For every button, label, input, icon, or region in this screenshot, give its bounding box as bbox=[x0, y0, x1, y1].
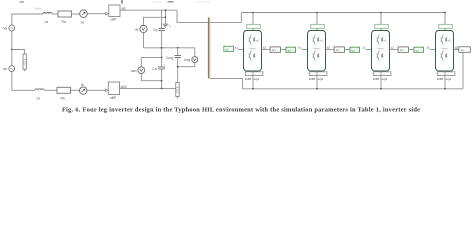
svg-text:Ra: Ra bbox=[62, 20, 66, 24]
capacitor Ca plates bbox=[158, 67, 165, 69]
faint speck D bbox=[152, 2, 162, 3]
wire Cp bottom lead bbox=[161, 31, 163, 48]
fuse Rf bottom stub bbox=[177, 97, 179, 99]
core coupling green line bbox=[209, 18, 211, 79]
diode D1 bbox=[253, 37, 255, 44]
junction node B bbox=[161, 57, 163, 59]
wire node A down to Ca bbox=[161, 48, 163, 67]
svg-text:Cp: Cp bbox=[153, 28, 157, 32]
leg 3 under box bbox=[373, 72, 391, 76]
wire Vn down to bottom rail bbox=[12, 72, 35, 91]
wire into leg 2 bbox=[302, 48, 308, 50]
leg 1 bottom wire bbox=[252, 71, 254, 89]
faint remnant C bbox=[35, 8, 43, 10]
wire Ra to ammeter ia bbox=[72, 13, 80, 15]
wire mid junction to fuse Rn bbox=[12, 50, 25, 55]
wire corner down to dc rail bbox=[177, 10, 241, 22]
diode D6 bbox=[381, 53, 383, 60]
junction ua/ground bbox=[165, 16, 167, 18]
wire to goto tag a bbox=[281, 48, 286, 50]
wire Cmg bottom lead bbox=[177, 58, 179, 67]
port arrow into block uBP2 bbox=[105, 89, 108, 92]
wire a0 output rail bbox=[120, 9, 177, 11]
svg-text:IGBT Leg4: IGBT Leg4 bbox=[437, 77, 452, 81]
resistor Rb bbox=[57, 87, 71, 93]
svg-text:Lb: Lb bbox=[37, 96, 41, 100]
wire uan top lead bbox=[140, 57, 142, 66]
ammeter block ia bbox=[270, 47, 280, 52]
diode D4 bbox=[317, 53, 319, 60]
junction top bus leg 2 bbox=[316, 12, 318, 14]
svg-text:bv: bv bbox=[352, 48, 356, 52]
wire Cp top lead bbox=[161, 10, 163, 28]
junction Ca loop bbox=[161, 80, 163, 82]
wire Va down to mid junction bbox=[11, 31, 13, 50]
wire top left vertical from source Va to top rail bbox=[12, 14, 43, 25]
diode D7 bbox=[445, 37, 447, 44]
svg-text:IGBT Leg1: IGBT Leg1 bbox=[245, 77, 260, 81]
wire Rb to ammeter ib bbox=[71, 89, 80, 91]
svg-text:uBP: uBP bbox=[111, 18, 117, 22]
leg 4 bottom wire bbox=[444, 71, 446, 89]
wire Vmg bottom lead bbox=[194, 63, 196, 67]
svg-text:IGBT Leg3: IGBT Leg3 bbox=[373, 77, 388, 81]
transistor Q5 bbox=[377, 36, 380, 45]
goto tag dc+ leg 4 bbox=[439, 24, 453, 28]
wire Cmg top lead bbox=[177, 48, 179, 56]
top bus bbox=[241, 12, 445, 14]
svg-text:un: un bbox=[3, 67, 7, 71]
svg-text:a1: a1 bbox=[225, 47, 229, 51]
goto tag dc+ leg 2 bbox=[311, 24, 325, 28]
wire ib to block uBP2 bbox=[87, 89, 105, 91]
leg 4 under box bbox=[437, 72, 455, 76]
node mid leg 3 bbox=[378, 48, 384, 50]
source Va circle bbox=[9, 25, 15, 31]
junction top bus leg 4 bbox=[444, 12, 446, 14]
wire node B horizontal bbox=[141, 56, 161, 58]
junction node C bbox=[177, 66, 179, 68]
transistor Q6 bbox=[377, 52, 380, 61]
svg-text:IGBT Leg2: IGBT Leg2 bbox=[309, 77, 324, 81]
svg-text:Ca: Ca bbox=[152, 67, 156, 71]
svg-text:ia: ia bbox=[81, 21, 84, 25]
transistor Q4 bbox=[313, 52, 316, 61]
svg-text:ic1: ic1 bbox=[400, 48, 404, 52]
ammeter ib bbox=[80, 87, 87, 94]
node mid leg 2 bbox=[314, 48, 320, 50]
wire node C horizontal bbox=[178, 66, 195, 68]
fuse Rf ticks bbox=[176, 88, 179, 93]
wire ua bottom lead bbox=[143, 33, 145, 48]
svg-text:ua: ua bbox=[135, 28, 139, 32]
junction node A at Cp bbox=[161, 47, 163, 49]
svg-text:a1: a1 bbox=[235, 46, 239, 50]
fuse Rn bottom stub bbox=[24, 69, 26, 71]
svg-text:Rb: Rb bbox=[61, 96, 65, 100]
wire Lb to Rb bbox=[44, 89, 57, 91]
wire to goto tag c bbox=[409, 48, 414, 50]
leg 2 bottom wire bbox=[316, 71, 318, 89]
junction bottom bus leg 4 bbox=[444, 88, 446, 90]
wire into leg 3 bbox=[366, 48, 372, 50]
resistor Ra bbox=[58, 11, 72, 17]
transistor Q8 bbox=[441, 52, 444, 61]
source Vn sine glyph bbox=[11, 68, 13, 69]
wire block out to fuse Rf bbox=[120, 87, 176, 89]
voltmeter ua bbox=[140, 25, 147, 32]
transistor Q1 bbox=[249, 36, 252, 45]
wire to goto tag b bbox=[345, 48, 350, 50]
faint dash top B bbox=[20, 1, 25, 2]
svg-text:n: n bbox=[169, 24, 171, 28]
wire mid junction down to source Vn bbox=[11, 50, 13, 66]
cropped block remnant tick bbox=[121, 0, 122, 4]
leg 3 top tap wire bbox=[380, 13, 382, 31]
core coupling red line bbox=[207, 18, 209, 79]
ammeter ib arrow glyph bbox=[82, 89, 85, 92]
faint dash top A bbox=[168, 1, 174, 3]
goto tag ag bbox=[286, 47, 296, 52]
diode D2 bbox=[253, 53, 255, 60]
source Va sine glyph bbox=[11, 27, 13, 28]
capacitor Cmg plates bbox=[175, 56, 181, 58]
svg-text:d1: d1 bbox=[427, 46, 431, 50]
svg-text:av: av bbox=[288, 48, 292, 52]
source Vn circle bbox=[9, 66, 15, 72]
wire leg 3 output bbox=[390, 48, 399, 50]
wire leg 4 to load box bbox=[454, 48, 459, 50]
voltmeter Vmg bbox=[192, 57, 198, 63]
wire leg 1 output bbox=[262, 48, 271, 50]
inductor Lb bbox=[35, 89, 44, 91]
inductor La bbox=[43, 13, 52, 14]
wire rail up to top bus bbox=[240, 13, 242, 23]
wire ia to block uBP1 bbox=[87, 13, 105, 15]
wire leg 4 output bbox=[454, 48, 463, 50]
goto tag dc+ leg 1 bbox=[247, 24, 261, 28]
ammeter block ic bbox=[398, 47, 408, 52]
IGBT leg 1 block bbox=[244, 31, 262, 72]
svg-text:Cmg: Cmg bbox=[166, 56, 173, 60]
transistor Q3 bbox=[313, 36, 316, 45]
junction top bus leg 1 bbox=[252, 12, 254, 14]
transistor Q2 bbox=[249, 52, 252, 61]
ammeter block ib bbox=[334, 47, 344, 52]
capacitor Cp plates bbox=[159, 29, 165, 31]
wire ground branch bbox=[165, 10, 167, 24]
wire uan bottom loop bbox=[141, 74, 161, 81]
svg-text:ib1: ib1 bbox=[336, 48, 340, 52]
ground symbol n bbox=[163, 24, 169, 27]
port arrow into block uBP1 bbox=[106, 12, 109, 15]
svg-text:Img: Img bbox=[184, 58, 190, 62]
junction top bus leg 3 bbox=[380, 12, 382, 14]
svg-text:ia1: ia1 bbox=[272, 48, 276, 52]
voltmeter Vmg glyph bbox=[194, 58, 197, 60]
IGBT leg 4 block bbox=[436, 31, 454, 72]
wire Ca bottom lead bbox=[161, 69, 163, 89]
svg-text:ib: ib bbox=[81, 83, 84, 87]
leg 2 under box bbox=[309, 72, 327, 76]
wire Vmg top lead bbox=[194, 48, 196, 57]
node mid leg 1 bbox=[250, 48, 256, 50]
transistor Q7 bbox=[441, 36, 444, 45]
bottom bus bbox=[242, 88, 463, 90]
junction a0/ground bbox=[165, 9, 167, 11]
leg 2 top tap wire bbox=[316, 13, 318, 31]
leg 1 under box bbox=[245, 72, 263, 76]
svg-text:Va: Va bbox=[3, 27, 7, 31]
diode D3 bbox=[317, 37, 319, 44]
voltmeter uan glyph bbox=[140, 69, 143, 72]
leg 4 top tap wire bbox=[444, 13, 446, 31]
wire La to Ra bbox=[52, 13, 58, 15]
faint speck E bbox=[196, 2, 210, 3]
ammeter ia arrow glyph bbox=[82, 12, 85, 15]
svg-text:+: + bbox=[164, 24, 166, 28]
junction Ca to out wire bbox=[161, 88, 163, 90]
load block Ln bbox=[459, 47, 471, 53]
IGBT leg 3 block bbox=[372, 31, 390, 72]
svg-text:Fig. 6. Four leg inverter desi: Fig. 6. Four leg inverter design in the … bbox=[62, 107, 420, 114]
wire into leg 4 bbox=[430, 48, 436, 50]
svg-text:cv: cv bbox=[416, 48, 420, 52]
svg-text:uan: uan bbox=[131, 69, 137, 73]
block uBP1 bbox=[109, 5, 120, 17]
leg 1 top tap wire bbox=[252, 13, 254, 31]
diode D8 bbox=[445, 53, 447, 60]
fuse Rf vertical bbox=[176, 83, 179, 97]
junction bottom bus leg 1 bbox=[252, 88, 254, 90]
block uBP2 bbox=[108, 82, 119, 95]
leg 3 bottom wire bbox=[380, 71, 382, 89]
diode D5 bbox=[381, 37, 383, 44]
goto tag coupling bbox=[224, 46, 234, 51]
junction bottom bus leg 3 bbox=[380, 88, 382, 90]
wire leg 2 output bbox=[326, 48, 335, 50]
wire node A horizontal bbox=[144, 47, 195, 49]
wire Rf top lead bbox=[177, 67, 179, 83]
svg-text:La: La bbox=[45, 20, 49, 24]
voltmeter ua glyph bbox=[142, 28, 145, 31]
svg-text:b1: b1 bbox=[299, 46, 303, 50]
wire leg4 load down bbox=[462, 52, 464, 89]
IGBT leg 2 block bbox=[308, 31, 326, 72]
goto tag bg bbox=[350, 47, 360, 52]
svg-text:+: + bbox=[163, 63, 165, 67]
wire into leg1 bbox=[238, 48, 244, 50]
node mid leg 4 bbox=[442, 48, 448, 50]
wire coupling bottom to bottom bus bbox=[210, 78, 243, 88]
ammeter ia bbox=[80, 10, 88, 18]
svg-text:uBP: uBP bbox=[110, 96, 116, 100]
svg-text:c1: c1 bbox=[363, 46, 367, 50]
junction node A at Cmg bbox=[177, 47, 179, 49]
goto tag dc+ leg 3 bbox=[375, 24, 389, 28]
fuse Rn vertical bbox=[23, 54, 26, 69]
fuse Rn ticks bbox=[23, 60, 26, 65]
goto tag cg bbox=[414, 47, 424, 52]
junction bottom bus leg 2 bbox=[316, 88, 318, 90]
voltmeter uan bbox=[138, 67, 145, 74]
junction mid left bbox=[11, 49, 13, 51]
wire ua top lead bbox=[144, 17, 166, 25]
svg-text:Ln: Ln bbox=[461, 48, 465, 52]
